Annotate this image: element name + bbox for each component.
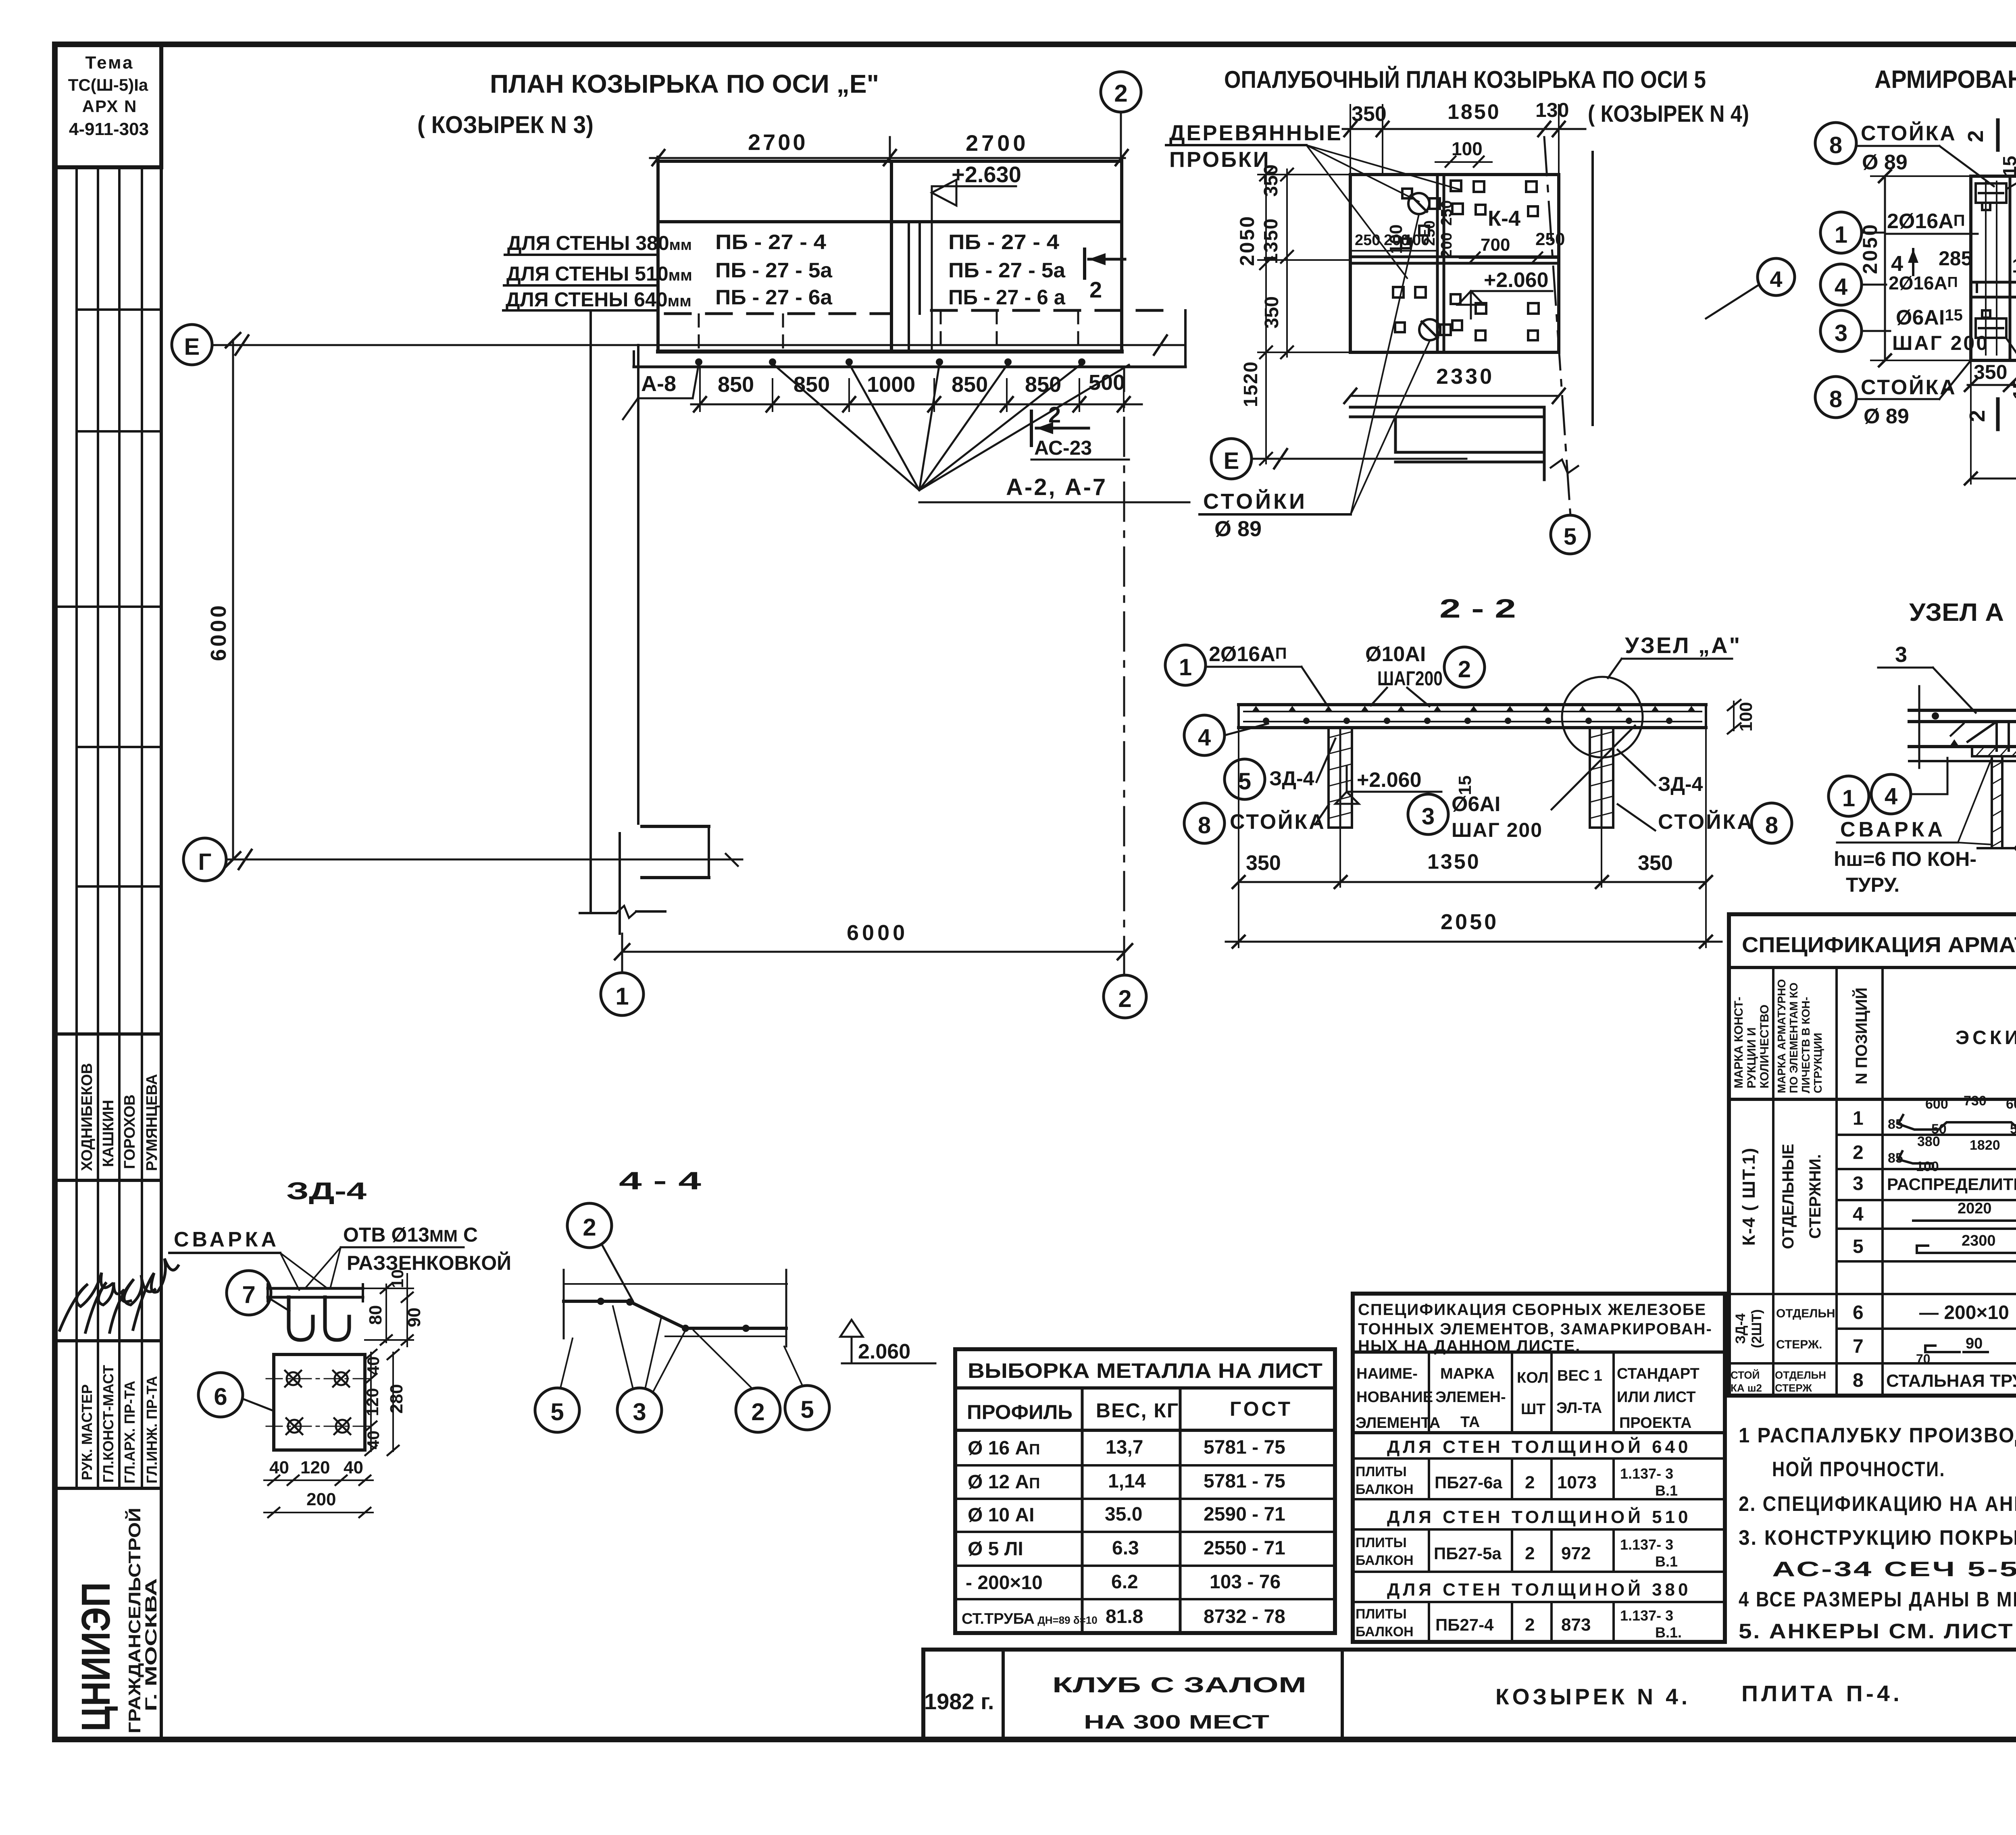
svg-text:ПЛИТЫ: ПЛИТЫ — [1356, 1606, 1407, 1622]
svg-text:Г. МОСКВА: Г. МОСКВА — [142, 1578, 160, 1711]
sec22 dim 2050 — [1226, 910, 1722, 948]
svg-text:МАРКА КОНСТ-: МАРКА КОНСТ- — [1732, 997, 1745, 1088]
svg-text:2. СПЕЦИФИКАЦИЮ НА АНКЕРЫ А-2;: 2. СПЕЦИФИКАЦИЮ НА АНКЕРЫ А-2; А-7; А-8 … — [1739, 1492, 2016, 1516]
svg-text:2300: 2300 — [1962, 1232, 1996, 1249]
svg-text:2550 - 71: 2550 - 71 — [1204, 1537, 1285, 1559]
svg-text:ДЛЯ СТЕН ТОЛЩИНОЙ 640: ДЛЯ СТЕН ТОЛЩИНОЙ 640 — [1387, 1436, 1691, 1457]
bigtable row1 — [1853, 1093, 2016, 1137]
det44 bar detail — [564, 1270, 787, 1346]
plan1 wall thickness labels — [503, 232, 692, 311]
bigtable rotated col headers — [1732, 979, 2016, 1096]
plan2 axis 5 dashed line — [1544, 137, 1570, 516]
svg-text:130: 130 — [1535, 99, 1569, 121]
svg-text:— 200×10: — 200×10 — [1919, 1302, 2009, 1323]
plan1 anchor dots — [695, 358, 1085, 366]
svg-text:350: 350 — [1638, 851, 1673, 875]
plan1 slab labels left — [715, 231, 833, 309]
svg-text:ПРОЕКТА: ПРОЕКТА — [1619, 1415, 1691, 1431]
svg-text:ПБ27-6а: ПБ27-6а — [1435, 1473, 1502, 1492]
sec22 right post hatched — [1590, 728, 1613, 828]
bigtable row2 — [1853, 1134, 2016, 1174]
svg-text:873: 873 — [1561, 1615, 1591, 1635]
notes text — [1739, 1424, 2016, 1643]
bigtable column lines — [1773, 967, 2016, 1396]
svg-text:СТОЙ: СТОЙ — [1731, 1369, 1760, 1381]
svg-text:130: 130 — [2012, 254, 2016, 277]
stamp: Tema box — [55, 44, 161, 167]
plan1 dashed wall line — [665, 310, 1165, 314]
svg-text:1.137- 3: 1.137- 3 — [1620, 1607, 1673, 1624]
plan2 slab plan outline — [1350, 175, 1559, 352]
plan1 axis circle 2 bottom — [1104, 369, 1146, 1018]
det44 elevation +2.060 — [840, 1320, 935, 1363]
svg-text:15: 15 — [1999, 156, 2016, 176]
svg-text:1 РАСПАЛУБКУ ПРОИЗВОДИТЬ ПОСЛЕ: 1 РАСПАЛУБКУ ПРОИЗВОДИТЬ ПОСЛЕ ДОСТИЖЕНИ… — [1739, 1424, 2016, 1447]
svg-text:1820: 1820 — [1970, 1138, 2000, 1153]
svg-text:5: 5 — [800, 1396, 814, 1423]
svg-text:90: 90 — [404, 1308, 424, 1327]
metal table frame — [955, 1349, 1335, 1633]
svg-text:1.137- 3: 1.137- 3 — [1620, 1536, 1673, 1553]
svg-text:В.1: В.1 — [1655, 1482, 1678, 1499]
sec22 dim 100 right — [1728, 700, 1756, 734]
svg-text:ТА: ТА — [1460, 1414, 1480, 1431]
svg-text:2: 2 — [1114, 80, 1127, 107]
svg-text:ДЛЯ СТЕН ТОЛЩИНОЙ 510: ДЛЯ СТЕН ТОЛЩИНОЙ 510 — [1387, 1506, 1691, 1527]
arm stoika label top with circle 8 — [1815, 121, 1994, 186]
svg-text:350: 350 — [1261, 296, 1283, 329]
plan2 bottom dim 2330 — [1344, 364, 1565, 403]
svg-text:1: 1 — [1853, 1108, 1864, 1129]
svg-text:1350: 1350 — [1427, 850, 1481, 874]
arm main slab rect — [1971, 176, 2016, 360]
svg-text:2.060: 2.060 — [858, 1340, 910, 1363]
svg-text:70: 70 — [1916, 1352, 1931, 1366]
svg-text:2700: 2700 — [966, 130, 1029, 156]
plan1 canopy edge below slabs — [634, 310, 1185, 367]
svg-text:ДЛЯ СТЕНЫ 640мм: ДЛЯ СТЕНЫ 640мм — [506, 288, 691, 311]
zd4 bolt holes — [285, 1371, 350, 1434]
svg-text:БАЛКОН: БАЛКОН — [1356, 1553, 1414, 1568]
svg-text:500: 500 — [1089, 370, 1125, 395]
svg-text:ПБ - 27 - 5а: ПБ - 27 - 5а — [715, 259, 833, 282]
svg-text:ВЕС 1: ВЕС 1 — [1557, 1367, 1602, 1384]
zd4 base plate — [266, 1354, 371, 1450]
uzelA upper slab — [1909, 686, 2016, 746]
svg-text:285: 285 — [1939, 247, 1972, 270]
svg-text:+2.060: +2.060 — [1357, 768, 1422, 792]
svg-text:Ø 89: Ø 89 — [1214, 517, 1262, 541]
svg-text:Ø6АI: Ø6АI — [1452, 793, 1500, 816]
svg-text:hш=6 ПО КОН-: hш=6 ПО КОН- — [1834, 848, 1976, 870]
svg-text:ПБ27-5а: ПБ27-5а — [1434, 1544, 1502, 1563]
svg-text:ПБ - 27 - 6 а: ПБ - 27 - 6 а — [948, 286, 1066, 309]
svg-text:РАЗЗЕНКОВКОЙ: РАЗЗЕНКОВКОЙ — [347, 1251, 511, 1274]
arm dim 350 bottom — [1965, 361, 2016, 391]
svg-text:2590 - 71: 2590 - 71 — [1204, 1504, 1285, 1525]
svg-text:ВЕС, КГ: ВЕС, КГ — [1096, 1399, 1179, 1422]
svg-text:2: 2 — [1118, 985, 1131, 1012]
svg-text:1.137- 3: 1.137- 3 — [1620, 1465, 1673, 1482]
svg-text:ГЛ.АРХ. ПР-ТА: ГЛ.АРХ. ПР-ТА — [121, 1381, 138, 1483]
svg-text:ДЛЯ СТЕНЫ 380мм: ДЛЯ СТЕНЫ 380мм — [507, 232, 692, 254]
plan1 axis G — [183, 838, 742, 881]
plan1 axis E line — [172, 325, 1185, 365]
svg-text:+2.630: +2.630 — [952, 162, 1021, 187]
svg-text:АС-34 СЕЧ 5-5.: АС-34 СЕЧ 5-5. — [1772, 1558, 2016, 1581]
svg-text:380: 380 — [1917, 1134, 1940, 1149]
svg-text:БАЛКОН: БАЛКОН — [1356, 1482, 1414, 1497]
svg-text:5781 - 75: 5781 - 75 — [1204, 1471, 1285, 1492]
svg-text:ПРОФИЛЬ: ПРОФИЛЬ — [967, 1401, 1073, 1423]
svg-text:К-4 ( ШТ.1): К-4 ( ШТ.1) — [1739, 1147, 1759, 1246]
svg-text:- 200×10: - 200×10 — [966, 1572, 1043, 1594]
svg-text:ЦНИИЭП: ЦНИИЭП — [73, 1582, 119, 1731]
svg-text:5781 - 75: 5781 - 75 — [1204, 1437, 1285, 1458]
svg-text:35.0: 35.0 — [1105, 1504, 1142, 1525]
svg-text:81.8: 81.8 — [1106, 1606, 1143, 1627]
plan2 probki squares left-bottom — [1393, 287, 1462, 332]
svg-text:УЗЕЛ „А": УЗЕЛ „А" — [1625, 632, 1741, 658]
svg-text:1,14: 1,14 — [1108, 1471, 1146, 1492]
svg-text:ДЛЯ СТЕНЫ 510мм: ДЛЯ СТЕНЫ 510мм — [506, 262, 692, 285]
svg-text:ЛИЧЕСТВ В КОН-: ЛИЧЕСТВ В КОН- — [1799, 997, 1812, 1093]
bigtable row3 — [1853, 1171, 2016, 1194]
svg-text:АРХ N: АРХ N — [82, 97, 137, 116]
svg-text:+2.060: +2.060 — [1484, 268, 1549, 292]
svg-text:ХОДНИБЕКОВ: ХОДНИБЕКОВ — [79, 1063, 96, 1171]
plan2 wall section below — [1350, 407, 1578, 480]
svg-text:4: 4 — [1853, 1204, 1864, 1225]
svg-text:2: 2 — [583, 1214, 596, 1241]
svg-text:3: 3 — [1853, 1173, 1864, 1194]
svg-text:ТС(Ш-5)Iа: ТС(Ш-5)Iа — [68, 75, 148, 94]
svg-text:НА 300 МЕСТ: НА 300 МЕСТ — [1084, 1712, 1269, 1733]
plan1 section mark 2 upper — [1085, 249, 1125, 302]
plan2 right outer wall line — [1591, 152, 1594, 425]
spec table row PB27-5a — [1356, 1535, 1678, 1570]
svg-text:СТОЙКА: СТОЙКА — [1230, 810, 1326, 834]
svg-text:8: 8 — [1829, 386, 1842, 412]
bigtable row4 — [1853, 1200, 2016, 1225]
svg-text:1350: 1350 — [1260, 218, 1282, 264]
svg-text:Ø 10 АI: Ø 10 АI — [968, 1504, 1034, 1526]
uzelA circles 1 4 left — [1829, 758, 1947, 816]
arm section mark 2 top — [1964, 120, 2016, 177]
bigtable row8 — [1853, 1366, 2016, 1396]
svg-text:Е: Е — [184, 334, 200, 360]
svg-text:ОПАЛУБОЧНЫЙ ПЛАН КОЗЫРЬКА ПО О: ОПАЛУБОЧНЫЙ ПЛАН КОЗЫРЬКА ПО ОСИ 5 — [1224, 66, 1706, 93]
svg-text:ШТ: ШТ — [1521, 1401, 1545, 1418]
arm bottom dim 2330 — [1965, 360, 2016, 485]
uzelA svarka label — [1834, 758, 1992, 896]
svg-text:3: 3 — [1422, 803, 1435, 830]
svg-text:ТУРУ.: ТУРУ. — [1846, 874, 1899, 896]
svg-text:Ø 5 ЛI: Ø 5 ЛI — [968, 1538, 1023, 1560]
svg-text:РУКЦИИ И: РУКЦИИ И — [1745, 1027, 1758, 1088]
svg-text:6.3: 6.3 — [1112, 1537, 1139, 1559]
plan1 dashed anchor drops — [699, 311, 1078, 350]
svg-text:350: 350 — [1974, 361, 2007, 383]
svg-text:НАИМЕ-: НАИМЕ- — [1356, 1365, 1418, 1382]
plan1 axis circle 1 bottom — [601, 973, 644, 1015]
bigtable row lines — [1729, 1135, 2016, 1363]
svg-text:8: 8 — [1198, 812, 1211, 838]
titleblock sheet name — [1495, 1681, 1903, 1709]
stamp: job titles rotated — [79, 1365, 160, 1483]
svg-text:250: 250 — [1438, 200, 1455, 226]
svg-text:ОТДЕЛЬН: ОТДЕЛЬН — [1775, 1369, 1826, 1381]
svg-text:120: 120 — [300, 1458, 330, 1477]
svg-text:4: 4 — [1885, 783, 1897, 809]
svg-text:850: 850 — [718, 372, 754, 397]
bigtable frame — [1729, 914, 2016, 1396]
svg-text:2050: 2050 — [1441, 910, 1499, 934]
svg-text:ПРОБКИ: ПРОБКИ — [1169, 148, 1270, 172]
svg-text:1073: 1073 — [1557, 1473, 1597, 1492]
svg-text:СТРУКЦИИ: СТРУКЦИИ — [1812, 1033, 1824, 1093]
svg-text:700: 700 — [1481, 235, 1510, 255]
svg-text:ПЛИТА П-4.: ПЛИТА П-4. — [1741, 1681, 1903, 1706]
svg-text:80: 80 — [366, 1305, 385, 1325]
svg-text:ШАГ200: ШАГ200 — [1377, 667, 1443, 690]
svg-text:НОЙ ПРОЧНОСТИ.: НОЙ ПРОЧНОСТИ. — [1772, 1457, 1945, 1481]
spec table title — [1358, 1301, 1712, 1355]
svg-text:8732 - 78: 8732 - 78 — [1204, 1606, 1285, 1627]
arm ZD-4 label top — [2007, 130, 2016, 189]
svg-text:8: 8 — [1829, 132, 1842, 158]
svg-text:ПБ - 27 - 4: ПБ - 27 - 4 — [715, 231, 826, 254]
svg-text:1520: 1520 — [1240, 361, 1262, 407]
svg-text:Ø 89: Ø 89 — [1864, 405, 1909, 428]
svg-text:2: 2 — [751, 1398, 764, 1425]
svg-text:1: 1 — [1179, 654, 1192, 680]
uzelA anchor bars through slab — [1968, 722, 2016, 751]
svg-text:Ø 89: Ø 89 — [1862, 151, 1908, 174]
svg-text:1: 1 — [1842, 785, 1855, 811]
plan1 elevation mark +2.630 — [932, 162, 1021, 351]
svg-text:ПО ЭЛЕМЕНТАМ КО: ПО ЭЛЕМЕНТАМ КО — [1787, 982, 1800, 1093]
arm ZD-4 label bottom — [2007, 339, 2016, 396]
svg-text:ЭЛЕМЕН-: ЭЛЕМЕН- — [1435, 1389, 1506, 1406]
svg-text:250: 250 — [1535, 229, 1565, 249]
sec22 stoika right circle 8 — [1618, 803, 1792, 843]
plan1 dim 2700+2700 — [650, 129, 1128, 165]
svg-text:ДЛЯ СТЕН ТОЛЩИНОЙ 380: ДЛЯ СТЕН ТОЛЩИНОЙ 380 — [1387, 1579, 1691, 1600]
svg-text:2Ø16АП: 2Ø16АП — [1887, 210, 1965, 233]
svg-text:5. АНКЕРЫ СМ. ЛИСТ ИМ-3 АЛЬБОМ: 5. АНКЕРЫ СМ. ЛИСТ ИМ-3 АЛЬБОМ V. — [1739, 1620, 2016, 1643]
svg-text:15: 15 — [2009, 379, 2016, 399]
svg-text:2: 2 — [1525, 1544, 1535, 1563]
svg-text:6000: 6000 — [206, 603, 231, 661]
uzelA pos3 leader — [1878, 643, 1976, 713]
plan2 stoiki label — [1200, 214, 1430, 541]
svg-text:280: 280 — [387, 1384, 406, 1413]
svg-text:5: 5 — [550, 1398, 564, 1425]
svg-text:2330: 2330 — [1436, 364, 1494, 389]
plan2 axis circle 4 — [1706, 258, 1795, 318]
svg-text:40: 40 — [364, 1356, 383, 1375]
svg-text:2: 2 — [1525, 1615, 1535, 1635]
zd4 hook dims — [365, 1269, 424, 1346]
svg-text:СВАРКА: СВАРКА — [1840, 818, 1946, 841]
svg-text:850: 850 — [952, 372, 988, 397]
svg-text:2050: 2050 — [1236, 215, 1258, 266]
svg-text:Г: Г — [198, 849, 212, 875]
stamp: row dividers — [55, 310, 161, 1488]
svg-text:ОТВ Ø13ММ С: ОТВ Ø13ММ С — [343, 1223, 478, 1246]
plan1 leader fan A-2 A-7 — [773, 364, 1189, 502]
arm circle 3 — [1820, 306, 1989, 354]
svg-text:(2ШТ): (2ШТ) — [1749, 1309, 1764, 1348]
plan2 derevyannye probki label — [1166, 121, 1460, 278]
svg-text:2 - 2: 2 - 2 — [1439, 593, 1516, 623]
svg-text:2Ø16АП: 2Ø16АП — [1209, 643, 1287, 666]
zd4 circle 6 — [198, 1373, 274, 1417]
svg-text:( КОЗЫРЕК N 4): ( КОЗЫРЕК N 4) — [1588, 101, 1749, 127]
svg-text:ЗД-4: ЗД-4 — [1733, 1313, 1748, 1344]
svg-text:350: 350 — [1352, 102, 1387, 126]
svg-text:120: 120 — [363, 1388, 382, 1416]
svg-text:2050: 2050 — [1859, 223, 1881, 274]
svg-text:350: 350 — [1260, 164, 1282, 197]
sec22 dim row 350 1350 350 — [1233, 728, 1712, 947]
det44 bottom circles — [535, 1386, 829, 1432]
svg-text:НОВАНИЕ: НОВАНИЕ — [1356, 1389, 1433, 1406]
svg-text:ПБ27-4: ПБ27-4 — [1435, 1615, 1494, 1634]
arm anchor detail bottom — [1976, 310, 2006, 338]
svg-text:2700: 2700 — [748, 129, 808, 155]
arm circle 1 — [1820, 210, 1978, 253]
spec table header — [1356, 1365, 1699, 1431]
svg-text:3: 3 — [633, 1398, 646, 1425]
svg-text:350: 350 — [1246, 851, 1281, 875]
svg-text:К-4: К-4 — [1488, 206, 1520, 231]
svg-text:ШАГ 200: ШАГ 200 — [1452, 819, 1543, 841]
sec22 slab — [1239, 705, 1706, 728]
svg-text:ОТДЕЛЬНЫЕ: ОТДЕЛЬНЫЕ — [1779, 1144, 1797, 1249]
plan1 slab outline — [658, 157, 1122, 352]
svg-text:ОТДЕЛЬН: ОТДЕЛЬН — [1776, 1307, 1835, 1320]
svg-text:40: 40 — [364, 1431, 383, 1450]
svg-text:6: 6 — [1853, 1302, 1864, 1323]
plan1 wall corner at axis G — [580, 826, 709, 934]
svg-text:СПЕЦИФИКАЦИЯ АРМАТУРЫ НА 1 КОН: СПЕЦИФИКАЦИЯ АРМАТУРЫ НА 1 КОНСТРУКЦИЮ — [1742, 933, 2016, 957]
plan2 axis E — [1211, 439, 1466, 479]
bigtable horizontal col headers — [1956, 987, 2016, 1079]
stamp: signatures — [60, 1259, 178, 1332]
svg-text:ЭЛ-ТА: ЭЛ-ТА — [1556, 1400, 1602, 1417]
plan2 probki squares left-top — [1401, 181, 1463, 248]
svg-text:МАРКА: МАРКА — [1440, 1365, 1495, 1382]
spec table row PB27-6a — [1356, 1464, 1678, 1499]
svg-text:2: 2 — [1458, 656, 1471, 682]
svg-text:МАРКА АРМАТУРНО: МАРКА АРМАТУРНО — [1775, 979, 1788, 1093]
sec22 circle 8 left — [1184, 803, 1329, 843]
svg-text:6: 6 — [214, 1383, 227, 1410]
spec table frame — [1353, 1294, 1725, 1642]
svg-text:ГОСТ: ГОСТ — [1230, 1398, 1293, 1420]
plan2 probki squares right-top — [1474, 181, 1538, 216]
svg-text:ЗД-4: ЗД-4 — [1658, 773, 1703, 795]
svg-text:3: 3 — [1895, 643, 1907, 667]
stamp: names rotated — [79, 1063, 160, 1171]
svg-text:КОЛ: КОЛ — [1517, 1369, 1548, 1386]
svg-text:Тема: Тема — [85, 53, 134, 73]
svg-text:СТЕРЖ.: СТЕРЖ. — [1776, 1338, 1822, 1351]
svg-text:СТАНДАРТ: СТАНДАРТ — [1617, 1365, 1699, 1382]
zd4 hook plate — [268, 1284, 363, 1301]
svg-text:250: 250 — [1355, 232, 1380, 249]
arm horizontal bars — [1974, 282, 2016, 297]
svg-text:4-911-303: 4-911-303 — [69, 119, 149, 139]
svg-text:100: 100 — [1736, 702, 1756, 731]
svg-text:КАШКИН: КАШКИН — [100, 1100, 117, 1167]
svg-text:8: 8 — [1765, 812, 1778, 838]
uzelA weld plate hatched — [1972, 747, 2016, 756]
svg-text:А-2, А-7: А-2, А-7 — [1006, 474, 1107, 500]
titleblock project name — [1052, 1673, 1306, 1733]
sec22 circle 1 and label — [1165, 643, 1327, 705]
svg-text:В.1: В.1 — [1655, 1553, 1678, 1570]
svg-text:РУМЯНЦЕВА: РУМЯНЦЕВА — [144, 1074, 160, 1171]
plan2 small dims under left-top — [1353, 232, 1435, 251]
svg-text:2: 2 — [1048, 402, 1061, 427]
svg-text:Ø10АI: Ø10АI — [1365, 643, 1426, 666]
svg-text:ВЫБОРКА МЕТАЛЛА НА ЛИСТ: ВЫБОРКА МЕТАЛЛА НА ЛИСТ — [968, 1359, 1322, 1383]
svg-text:СТЕРЖ: СТЕРЖ — [1775, 1382, 1812, 1394]
arm stoika label bottom with circle 8 — [1815, 360, 1971, 428]
zd4 hooks — [289, 1297, 349, 1340]
svg-text:ЭЛЕМЕНТА: ЭЛЕМЕНТА — [1356, 1415, 1440, 1431]
svg-text:2: 2 — [1525, 1473, 1535, 1492]
svg-text:5: 5 — [1564, 524, 1577, 550]
svg-text:200: 200 — [306, 1490, 336, 1509]
svg-text:ТОННЫХ ЭЛЕМЕНТОВ, ЗАМАРКИРОВАН: ТОННЫХ ЭЛЕМЕНТОВ, ЗАМАРКИРОВАН- — [1358, 1320, 1712, 1338]
svg-text:ИЛИ ЛИСТ: ИЛИ ЛИСТ — [1617, 1389, 1696, 1406]
svg-text:2: 2 — [1965, 410, 1989, 422]
svg-text:1000: 1000 — [867, 372, 915, 397]
metal table rows — [962, 1437, 1285, 1627]
svg-text:1: 1 — [615, 983, 629, 1010]
svg-text:100: 100 — [1404, 232, 1429, 249]
svg-text:ПБ - 27 - 6а: ПБ - 27 - 6а — [715, 286, 833, 309]
sec22 circle 5 zd4 — [1225, 739, 1335, 799]
det44 leaders — [560, 1306, 802, 1392]
plan2 top dim 350 1850 130 — [1343, 99, 1585, 175]
stamp: CNIIEP block — [73, 1508, 160, 1733]
plan1 horizontal dim 6000 — [615, 921, 1132, 973]
svg-text:ПЛИТЫ: ПЛИТЫ — [1356, 1464, 1407, 1479]
svg-text:В.1.: В.1. — [1655, 1624, 1682, 1641]
svg-text:3: 3 — [1835, 320, 1847, 346]
zd4 otv label — [306, 1223, 511, 1287]
arm anchor detail top — [1976, 183, 2006, 210]
arm section mark 2 bottom — [1965, 379, 2016, 429]
svg-text:2020: 2020 — [1958, 1200, 1992, 1217]
arm left dim 2050 — [1859, 170, 1971, 366]
svg-text:600: 600 — [1925, 1096, 1948, 1112]
zd4 circle 7 — [227, 1271, 289, 1315]
svg-text:600: 600 — [2006, 1096, 2016, 1112]
svg-text:2: 2 — [1964, 130, 1988, 142]
svg-text:90: 90 — [1966, 1335, 1983, 1352]
svg-text:ПЛИТЫ: ПЛИТЫ — [1356, 1535, 1407, 1550]
bigtable row6 — [1853, 1300, 2016, 1323]
svg-text:КОЛИЧЕСТВО: КОЛИЧЕСТВО — [1758, 1005, 1771, 1088]
plan1 slab labels right — [948, 231, 1066, 309]
svg-text:4: 4 — [1198, 724, 1211, 751]
